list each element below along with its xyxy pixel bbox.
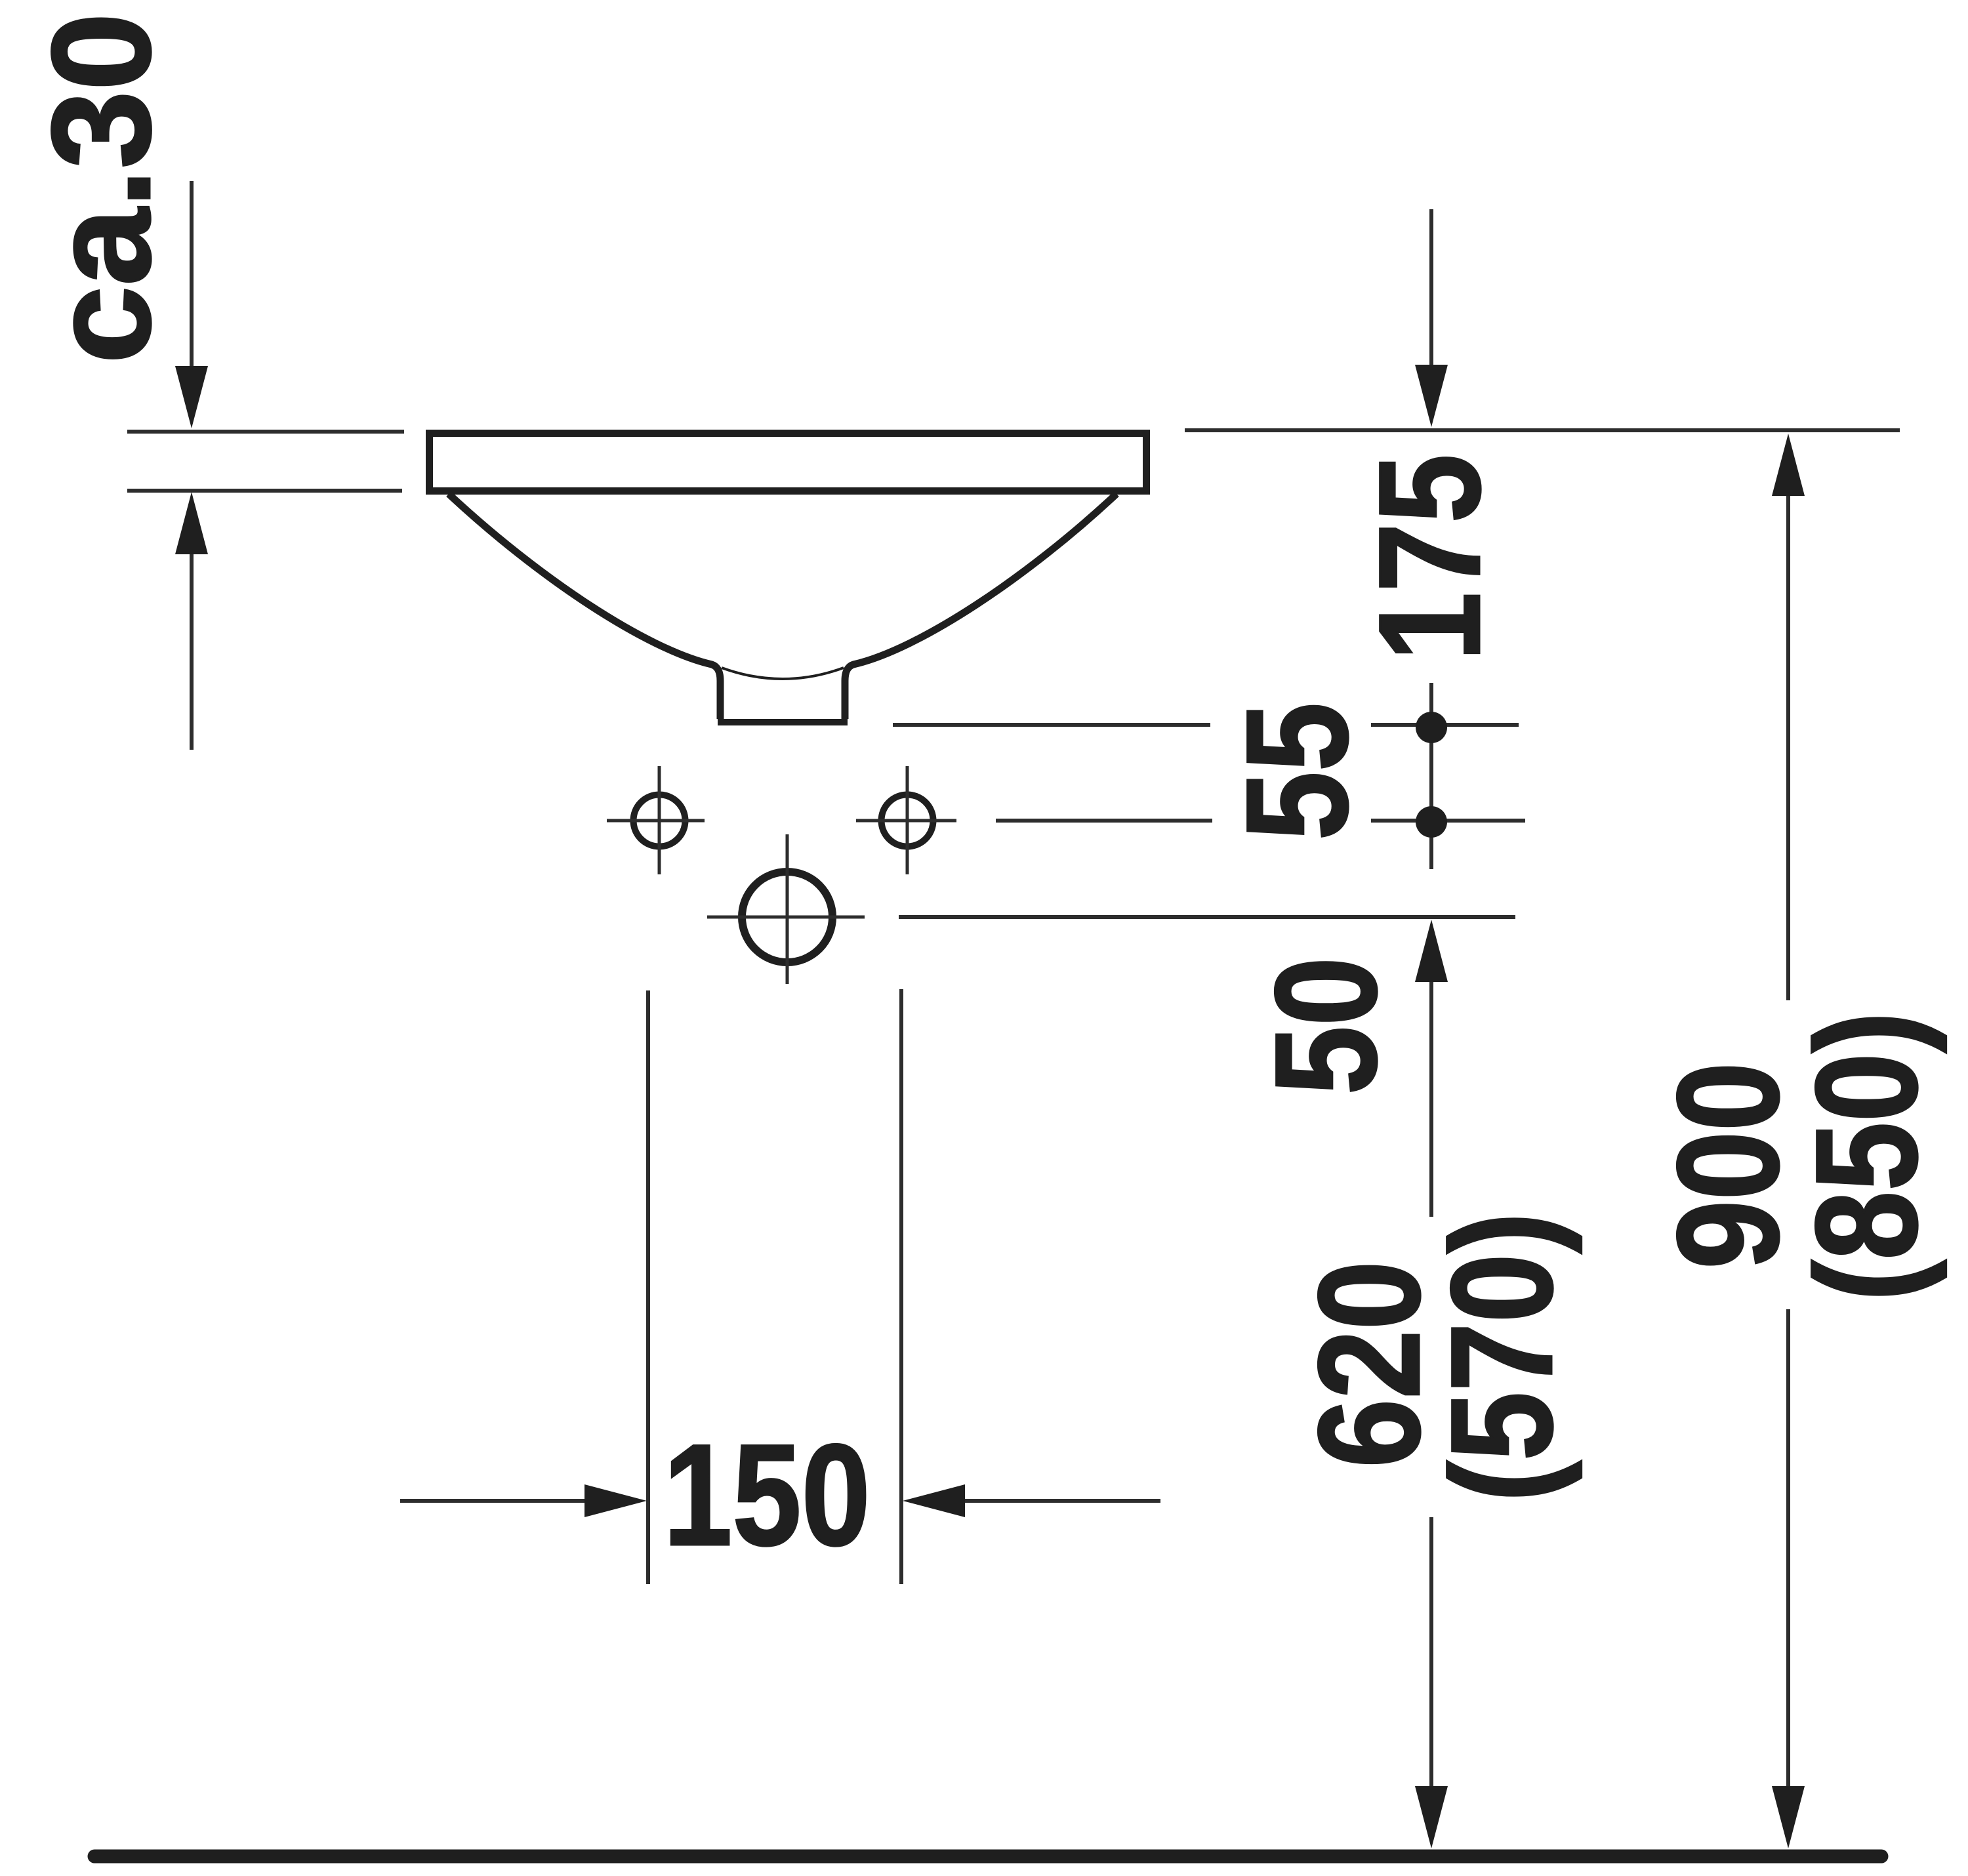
svg-text:55: 55 bbox=[1217, 703, 1378, 840]
right extension line, counter top level bbox=[1185, 428, 1900, 432]
extension line, drain bottom level (left part) bbox=[893, 723, 1210, 727]
right faucet hole circle bbox=[882, 795, 933, 847]
175 arrowhead (down, at counter top) bbox=[1415, 365, 1448, 427]
150 right arrowhead (left) bbox=[903, 1484, 965, 1517]
left extension line, counter top level bbox=[127, 430, 404, 434]
right faucet hole crosshair horizontal bbox=[856, 819, 956, 823]
left extension line, counter bottom level bbox=[127, 489, 402, 493]
svg-text:(850): (850) bbox=[1786, 1011, 1948, 1301]
washbasin bowl outline bbox=[449, 494, 1117, 719]
extension line, faucet hole level (left part) bbox=[996, 819, 1212, 823]
150 dimension line left bbox=[400, 1499, 587, 1503]
dot at faucet hole level bbox=[1416, 806, 1447, 838]
left faucet hole circle bbox=[634, 795, 686, 847]
spout hole circle bbox=[742, 872, 832, 962]
ca.30 dimension upper arrow line bbox=[190, 181, 194, 375]
bowl bottom thin arc (seen through drain) bbox=[722, 668, 844, 679]
svg-text:175: 175 bbox=[1349, 454, 1511, 661]
right faucet hole crosshair vertical bbox=[906, 766, 909, 874]
ca.30 upper arrowhead (down) bbox=[175, 366, 208, 428]
extension line, spout hole level bbox=[899, 915, 1515, 919]
left faucet hole crosshair horizontal bbox=[607, 819, 705, 823]
left faucet hole crosshair vertical bbox=[658, 766, 661, 874]
dot at drain bottom level bbox=[1416, 712, 1447, 743]
floor line bbox=[94, 1850, 1881, 1864]
150 dimension line right bbox=[962, 1499, 1160, 1503]
ca.30 lower arrow line bbox=[190, 550, 194, 750]
150 extension line right bbox=[899, 989, 903, 1584]
svg-text:900: 900 bbox=[1648, 1062, 1809, 1269]
900 (850) arrowhead (down, at floor) bbox=[1772, 1786, 1805, 1848]
svg-text:(570): (570) bbox=[1422, 1212, 1583, 1502]
svg-text:150: 150 bbox=[663, 1415, 871, 1576]
150 extension line left bbox=[646, 990, 650, 1584]
svg-text:50: 50 bbox=[1246, 957, 1407, 1095]
620 (570) arrowhead (down, at floor) bbox=[1415, 1786, 1448, 1848]
620 (570) dimension line bbox=[1429, 1517, 1433, 1788]
150 left arrowhead (right) bbox=[584, 1484, 647, 1517]
50 dimension arrowhead (up, at spout hole level) bbox=[1415, 920, 1448, 982]
55 dimension line with dots bbox=[1429, 683, 1433, 869]
50 dimension line bbox=[1429, 982, 1433, 1217]
drain outlet bottom bbox=[718, 719, 848, 725]
counter / worktop rectangle bbox=[430, 434, 1147, 491]
ca.30 lower arrowhead (up) bbox=[175, 492, 208, 554]
svg-text:ca.30: ca.30 bbox=[23, 12, 180, 364]
spout hole crosshair vertical bbox=[786, 834, 789, 984]
spout hole crosshair horizontal bbox=[707, 916, 865, 919]
900 (850) dimension line lower bbox=[1786, 1309, 1790, 1788]
extension line, faucet hole level (right part) bbox=[1371, 819, 1525, 823]
extension line, drain bottom level (right part) bbox=[1371, 723, 1519, 727]
900 (850) arrowhead (up, at counter top) bbox=[1772, 434, 1805, 496]
900 (850) dimension line upper bbox=[1786, 496, 1790, 1000]
175 dimension top line bbox=[1429, 209, 1433, 375]
